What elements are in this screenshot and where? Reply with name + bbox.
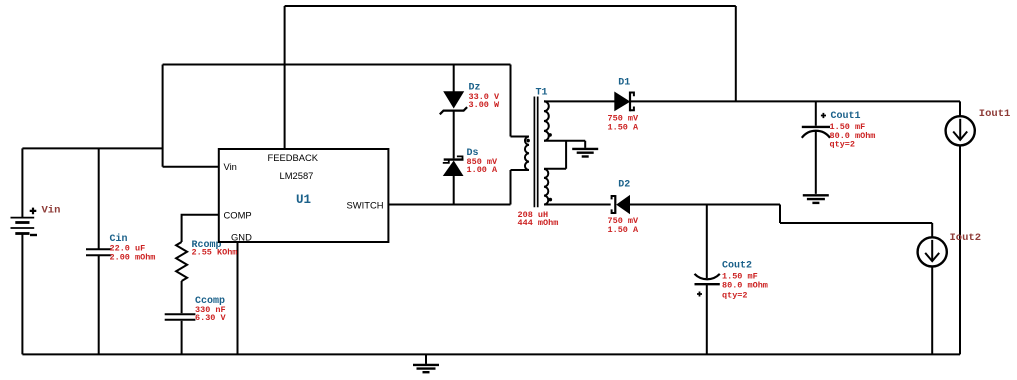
capacitor Cout2: [695, 274, 720, 297]
wire: secondary1 bottom to ground: [544, 141, 585, 148]
schottky diode D1: [614, 92, 634, 112]
transformer T1 core: [534, 97, 537, 208]
wire: drop to D1 output x=735.8: [735, 6, 737, 101]
svg-text:Cout1: Cout1: [831, 111, 861, 122]
transformer T1 secondary1 polarity dot: [548, 133, 552, 137]
svg-text:qty=2: qty=2: [830, 139, 856, 149]
wire: Cout1 leads x=815.8: [815, 101, 817, 193]
wire: battery bottom lead: [21, 234, 23, 355]
svg-text:Iout1: Iout1: [979, 108, 1011, 120]
resistor Rcomp: [176, 242, 187, 281]
wire: top feedback rail y=6: [285, 5, 736, 7]
op-amp U1 LM2587 box: [219, 149, 389, 242]
svg-text:Iout2: Iout2: [950, 232, 982, 244]
svg-text:1.50 A: 1.50 A: [608, 225, 640, 235]
wire: GND pin drop x=237.5: [237, 242, 239, 354]
svg-text:6.30 V: 6.30 V: [195, 313, 227, 323]
transformer T1 secondary2 polarity dot: [549, 198, 553, 202]
wire: battery top lead: [21, 148, 23, 217]
wire: COMP pin to Rcomp: [182, 215, 219, 242]
svg-text:3.00 W: 3.00 W: [469, 100, 501, 110]
wire: jog secondary1 to secondary2: [544, 141, 566, 169]
wire: Cout2 leads x=706.8: [706, 205, 708, 355]
svg-text:2.00 mOhm: 2.00 mOhm: [110, 253, 156, 263]
ground at transformer secondary: [572, 149, 598, 157]
svg-text:T1: T1: [536, 88, 548, 99]
battery V1 Vin: [11, 208, 38, 235]
wire: bottom ground rail y=354.4: [22, 353, 960, 355]
svg-text:U1: U1: [296, 193, 311, 207]
wire: Dz/Ds chain verticals x=453.7: [453, 65, 455, 205]
svg-text:Vin: Vin: [42, 205, 61, 217]
capacitor Ccomp: [165, 314, 196, 320]
svg-text:D2: D2: [618, 180, 630, 191]
transformer T1 primary polarity dot: [526, 139, 530, 143]
schottky diode D2: [612, 195, 630, 214]
svg-text:Cout2: Cout2: [722, 261, 752, 272]
transformer T1 secondary1 winding: [544, 101, 549, 141]
current source Iout2: [918, 237, 947, 266]
transformer T1 primary winding: [525, 137, 529, 171]
svg-text:80.0 mOhm: 80.0 mOhm: [722, 281, 768, 291]
wire: Cin leads x=98.7: [98, 148, 100, 354]
wire: second rail y=64.5: [163, 64, 511, 66]
svg-text:qty=2: qty=2: [722, 291, 748, 301]
svg-text:SWITCH: SWITCH: [347, 200, 384, 211]
wire: Ccomp to ground rail: [181, 321, 183, 355]
svg-text:COMP: COMP: [224, 210, 252, 221]
wire: feedback drop x=284.6: [284, 6, 286, 149]
svg-text:D1: D1: [618, 77, 630, 88]
transformer T1 secondary2 winding: [544, 169, 548, 205]
wire: input rail y=148.4: [22, 147, 162, 149]
capacitor Cin: [86, 249, 111, 255]
wire: primary top connection: [511, 65, 530, 137]
wire: D1 output line y=101: [544, 101, 960, 116]
zener diode Dz: [440, 91, 467, 114]
svg-text:GND: GND: [231, 232, 252, 243]
wire: left vertical x=162.6 to Vin pin: [163, 65, 219, 167]
wire: Rcomp to Ccomp: [181, 281, 183, 313]
wire: D2 output line y=204.5: [544, 205, 932, 238]
schottky diode Ds: [443, 156, 464, 176]
svg-text:1.50 A: 1.50 A: [608, 122, 640, 132]
wire: SWITCH line y=204.5: [388, 170, 529, 205]
svg-text:FEEDBACK: FEEDBACK: [268, 152, 319, 163]
ground at Cout1: [803, 195, 829, 203]
svg-text:LM2587: LM2587: [280, 170, 314, 181]
svg-text:2.55 KOhm: 2.55 KOhm: [192, 248, 238, 258]
wire: Iout2 bottom lead: [931, 267, 933, 355]
svg-text:1.00 A: 1.00 A: [467, 165, 499, 175]
svg-text:Vin: Vin: [224, 161, 237, 172]
wire: Iout1 bottom lead x=960: [959, 145, 961, 354]
current source Iout1: [946, 116, 975, 145]
svg-text:444 mOhm: 444 mOhm: [518, 218, 559, 228]
capacitor Cout1: [802, 113, 830, 138]
ground at bottom rail: [413, 354, 439, 372]
